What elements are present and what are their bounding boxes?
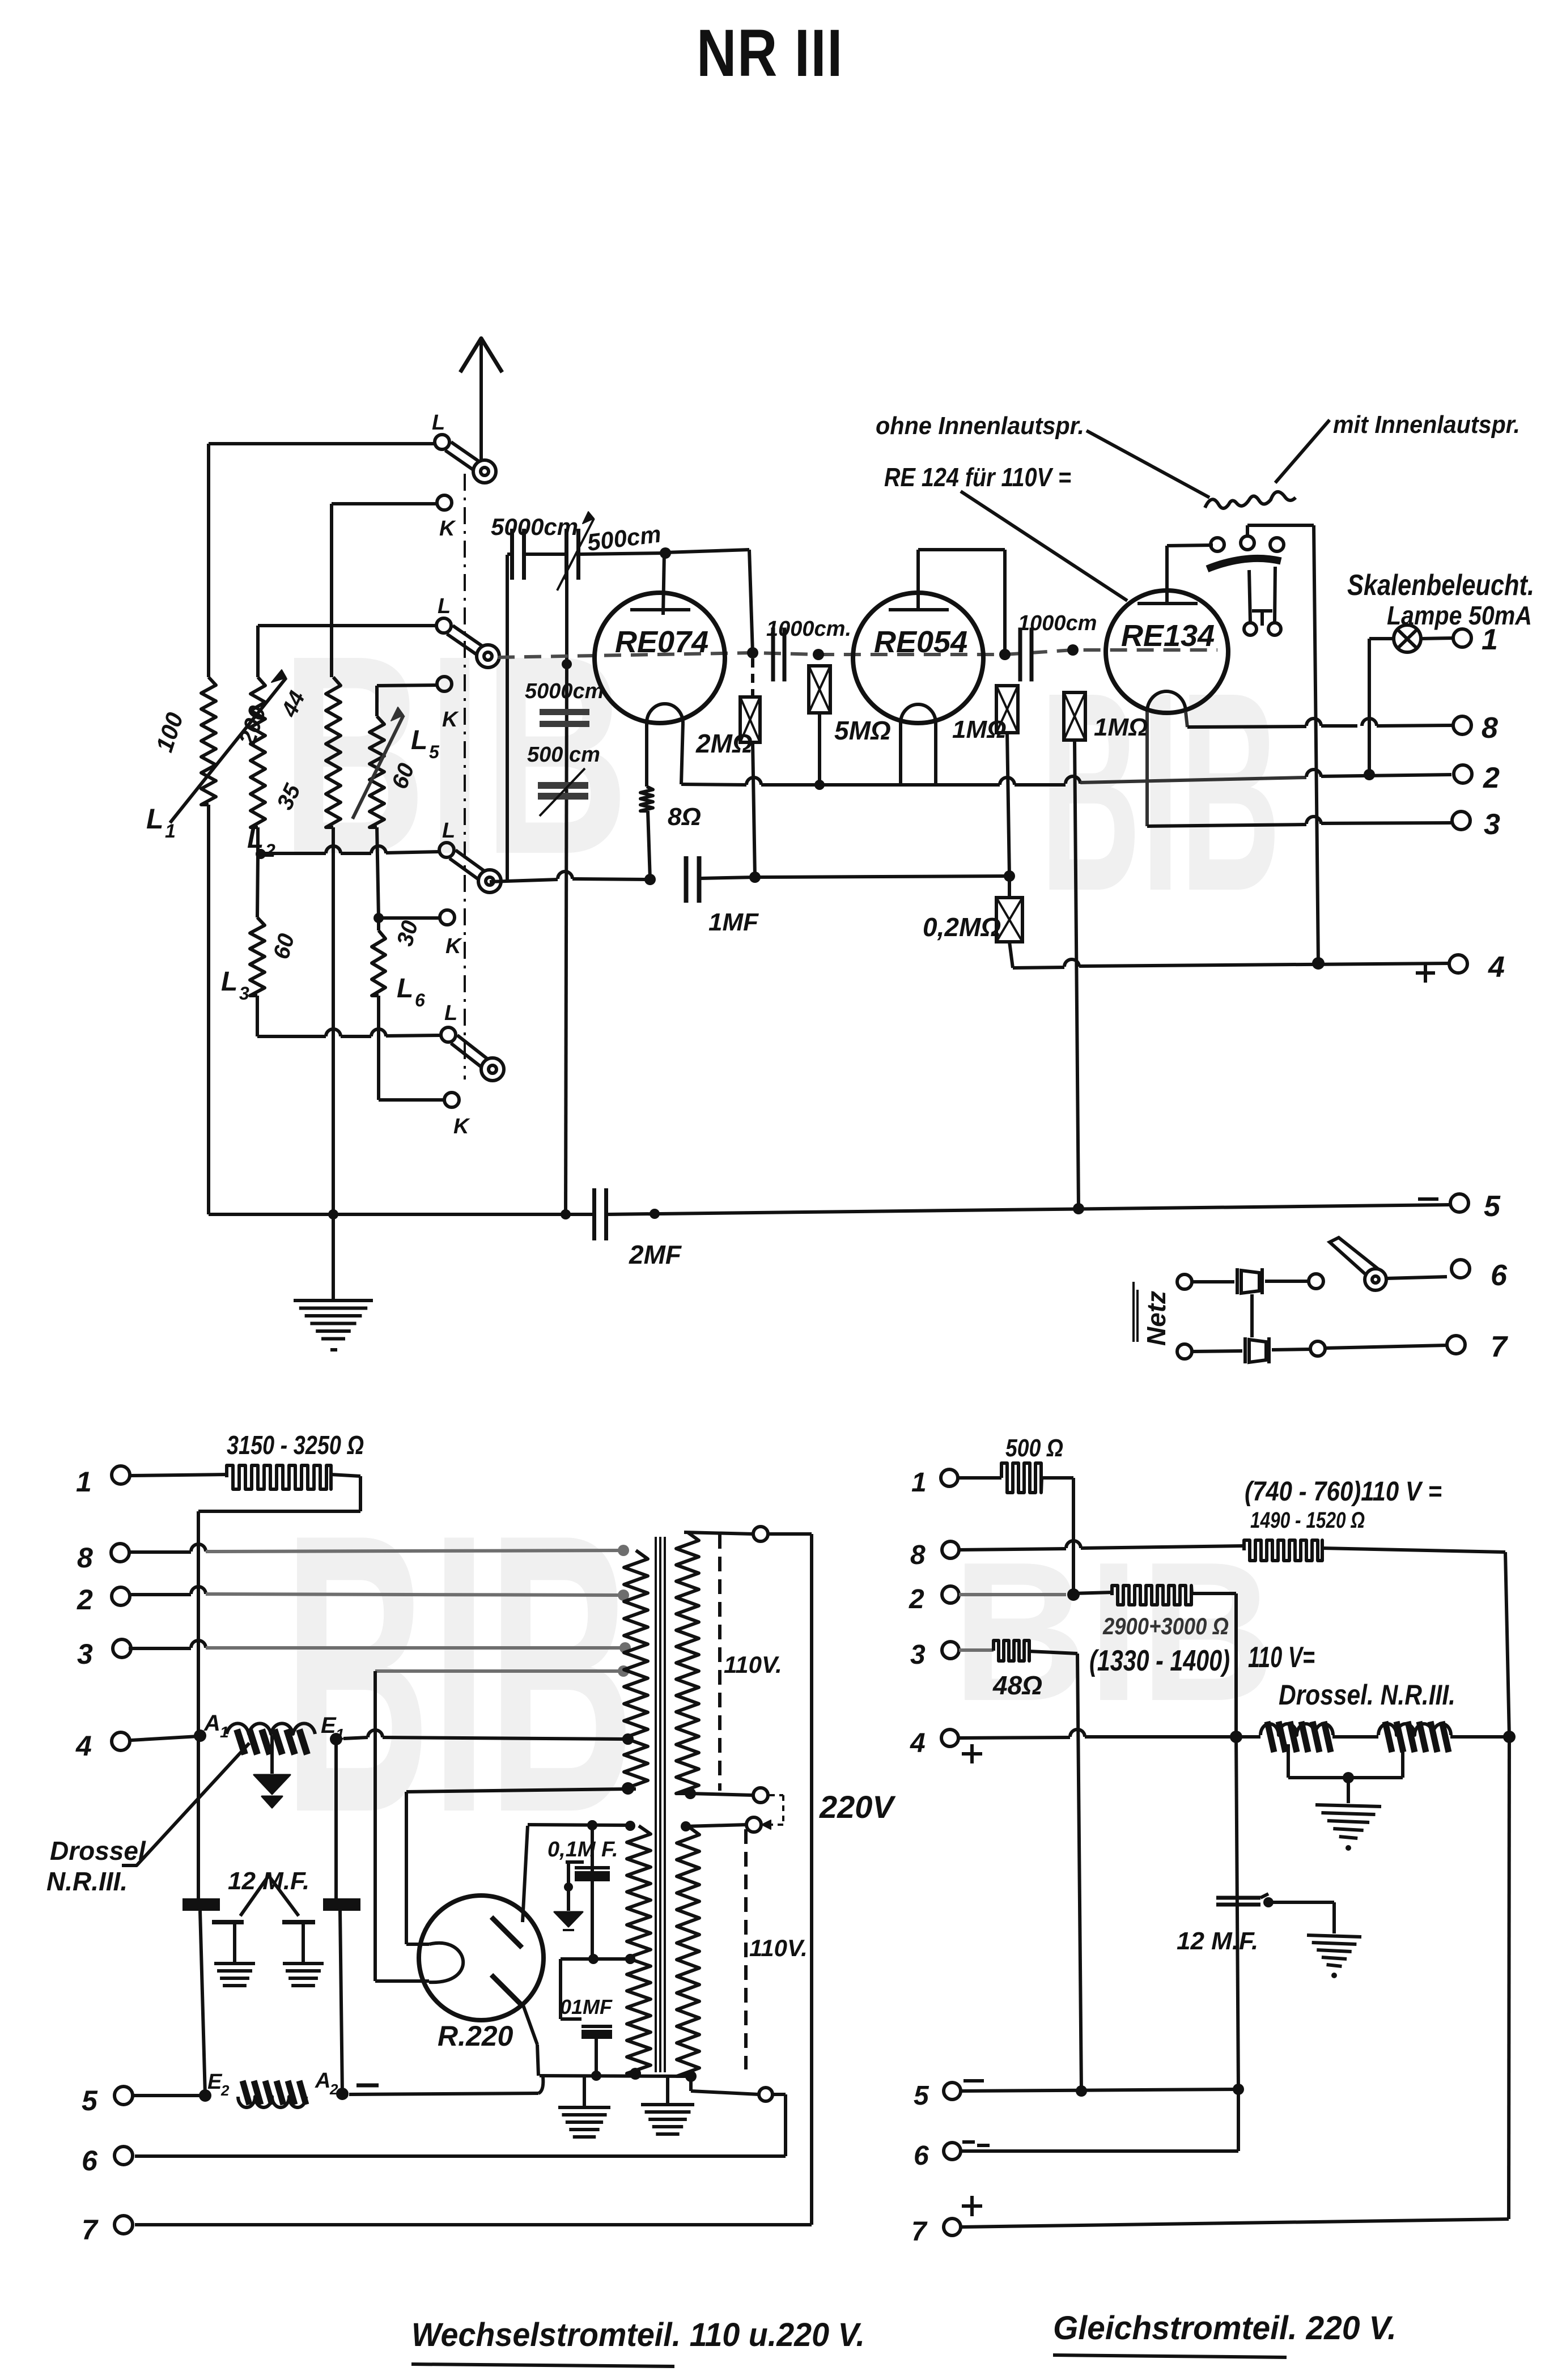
svg-text:110 V=: 110 V= bbox=[1248, 1641, 1315, 1674]
svg-text:0,2MΩ: 0,2MΩ bbox=[923, 912, 1001, 942]
svg-text:5: 5 bbox=[429, 742, 440, 762]
svg-text:L: L bbox=[397, 974, 413, 1004]
svg-text:A: A bbox=[203, 1711, 220, 1736]
svg-text:6: 6 bbox=[1491, 1259, 1508, 1292]
svg-text:500 cm: 500 cm bbox=[527, 743, 600, 767]
svg-text:5000cm: 5000cm bbox=[525, 679, 604, 703]
svg-text:(740 - 760)110 V =: (740 - 760)110 V = bbox=[1245, 1477, 1442, 1507]
svg-text:L: L bbox=[442, 819, 455, 843]
svg-text:R.220: R.220 bbox=[438, 2020, 513, 2052]
svg-text:01MF: 01MF bbox=[560, 1995, 613, 2018]
svg-text:110V.: 110V. bbox=[724, 1651, 782, 1678]
svg-text:2: 2 bbox=[77, 1584, 93, 1616]
svg-text:4: 4 bbox=[910, 1728, 926, 1758]
svg-text:4: 4 bbox=[75, 1730, 92, 1762]
svg-text:Wechselstromteil. 110 u.220 V.: Wechselstromteil. 110 u.220 V. bbox=[411, 2317, 865, 2353]
svg-text:7: 7 bbox=[1491, 1331, 1508, 1363]
svg-text:2MΩ: 2MΩ bbox=[695, 729, 753, 758]
svg-text:2: 2 bbox=[220, 2082, 230, 2099]
svg-text:(1330 - 1400): (1330 - 1400) bbox=[1089, 1644, 1230, 1677]
svg-text:L: L bbox=[411, 725, 427, 755]
svg-text:8: 8 bbox=[77, 1542, 93, 1574]
svg-text:E: E bbox=[207, 2070, 223, 2094]
svg-text:A: A bbox=[315, 2069, 330, 2093]
svg-text:Drossel. N.R.III.: Drossel. N.R.III. bbox=[1279, 1679, 1455, 1711]
svg-text:1000cm.: 1000cm. bbox=[766, 617, 851, 641]
svg-text:8: 8 bbox=[1482, 712, 1498, 745]
svg-text:L: L bbox=[444, 1001, 457, 1025]
svg-text:0,1M F.: 0,1M F. bbox=[547, 1838, 618, 1861]
svg-text:1: 1 bbox=[911, 1468, 927, 1498]
svg-text:1MF: 1MF bbox=[708, 908, 759, 936]
svg-text:1: 1 bbox=[76, 1466, 92, 1498]
svg-text:5000cm: 5000cm bbox=[491, 513, 578, 540]
svg-text:2: 2 bbox=[909, 1584, 924, 1614]
svg-text:7: 7 bbox=[82, 2214, 99, 2246]
svg-text:1000cm: 1000cm bbox=[1018, 611, 1097, 635]
svg-text:mit Innenlautspr.: mit Innenlautspr. bbox=[1333, 411, 1520, 439]
svg-text:6: 6 bbox=[82, 2145, 98, 2177]
svg-text:K: K bbox=[442, 708, 459, 732]
svg-text:1MΩ: 1MΩ bbox=[1094, 713, 1148, 741]
svg-text:1MΩ: 1MΩ bbox=[952, 716, 1006, 743]
svg-text:5MΩ: 5MΩ bbox=[834, 716, 891, 745]
svg-text:K: K bbox=[445, 934, 462, 958]
svg-text:Drossel: Drossel bbox=[50, 1836, 146, 1865]
svg-text:Netz: Netz bbox=[1141, 1291, 1171, 1346]
svg-text:2900+3000 Ω: 2900+3000 Ω bbox=[1102, 1613, 1229, 1639]
svg-text:N.R.III.: N.R.III. bbox=[46, 1867, 128, 1896]
svg-text:RE074: RE074 bbox=[615, 625, 708, 659]
svg-text:3: 3 bbox=[1484, 808, 1500, 841]
svg-text:L: L bbox=[247, 824, 264, 854]
svg-text:1490 - 1520 Ω: 1490 - 1520 Ω bbox=[1250, 1508, 1365, 1533]
svg-text:L: L bbox=[438, 594, 451, 618]
svg-text:500 Ω: 500 Ω bbox=[1005, 1434, 1063, 1462]
svg-text:5: 5 bbox=[1484, 1190, 1501, 1223]
svg-text:2: 2 bbox=[265, 840, 275, 861]
svg-text:Gleichstromteil. 220 V.: Gleichstromteil. 220 V. bbox=[1053, 2310, 1397, 2347]
svg-text:L: L bbox=[221, 967, 237, 997]
svg-text:6: 6 bbox=[415, 990, 425, 1010]
svg-text:8Ω: 8Ω bbox=[668, 803, 701, 831]
svg-text:K: K bbox=[453, 1115, 470, 1138]
svg-text:ohne Innenlautspr.: ohne Innenlautspr. bbox=[876, 412, 1084, 440]
svg-text:NR III: NR III bbox=[697, 16, 843, 91]
svg-text:RE134: RE134 bbox=[1121, 619, 1215, 653]
svg-text:5: 5 bbox=[82, 2085, 98, 2116]
svg-text:8: 8 bbox=[910, 1540, 926, 1570]
svg-text:3: 3 bbox=[910, 1640, 926, 1670]
svg-text:RE 124 für 110V =: RE 124 für 110V = bbox=[884, 462, 1071, 492]
svg-text:220V: 220V bbox=[819, 1789, 896, 1825]
svg-text:3150 - 3250 Ω: 3150 - 3250 Ω bbox=[227, 1430, 364, 1460]
svg-text:2: 2 bbox=[1483, 762, 1500, 794]
svg-text:L: L bbox=[432, 411, 445, 435]
svg-text:2MF: 2MF bbox=[629, 1240, 682, 1269]
svg-text:3: 3 bbox=[77, 1638, 93, 1670]
svg-text:5: 5 bbox=[914, 2081, 929, 2111]
svg-text:1: 1 bbox=[165, 821, 176, 842]
svg-text:12 M.F.: 12 M.F. bbox=[228, 1867, 309, 1895]
svg-text:K: K bbox=[439, 517, 456, 541]
svg-text:RE054: RE054 bbox=[874, 625, 967, 659]
svg-text:L: L bbox=[146, 803, 164, 835]
svg-text:48Ω: 48Ω bbox=[992, 1671, 1042, 1700]
svg-text:Skalenbeleucht.: Skalenbeleucht. bbox=[1347, 569, 1534, 602]
svg-text:4: 4 bbox=[1488, 951, 1505, 984]
svg-text:110V.: 110V. bbox=[749, 1935, 808, 1961]
svg-text:6: 6 bbox=[914, 2141, 929, 2171]
svg-text:3: 3 bbox=[239, 983, 249, 1004]
svg-text:1: 1 bbox=[1482, 623, 1498, 656]
svg-text:12 M.F.: 12 M.F. bbox=[1177, 1927, 1258, 1955]
svg-text:7: 7 bbox=[911, 2217, 928, 2247]
